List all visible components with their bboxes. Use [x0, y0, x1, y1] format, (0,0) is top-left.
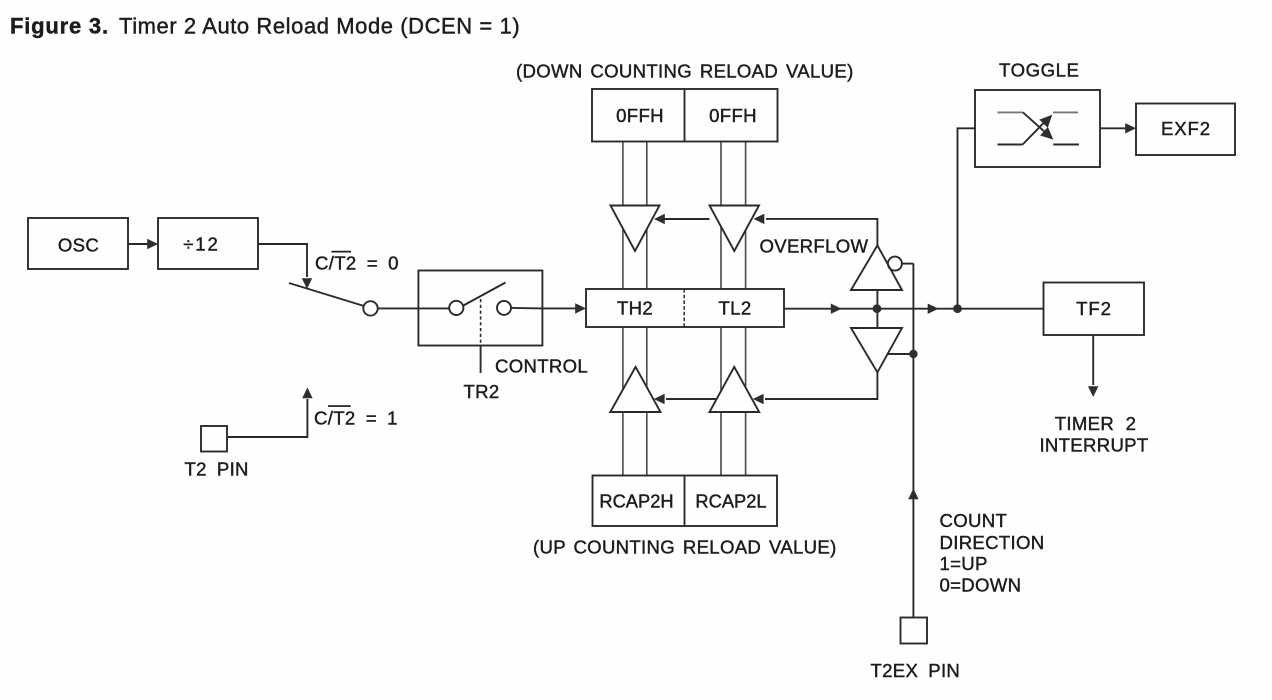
wire arrow into down-left buffer — [654, 214, 710, 224]
bus lower-left pair — [623, 327, 647, 476]
wire T2 pin up arrow — [227, 388, 313, 438]
switch blade inside — [463, 283, 506, 307]
dashed control linkage — [480, 299, 482, 346]
buffer overflow with bubble — [851, 245, 913, 290]
crossover symbol — [998, 112, 1079, 144]
bus upper-right pair — [721, 142, 746, 290]
svg-text:0FFH: 0FFH — [709, 105, 757, 126]
buffer up-right — [710, 367, 760, 412]
svg-text:RCAP2H: RCAP2H — [599, 491, 673, 512]
wire arrow control to TH2 — [543, 303, 586, 313]
svg-text:C/T2 = 1: C/T2 = 1 — [314, 408, 398, 429]
wire buffer input to main line — [876, 290, 878, 309]
wire stub junction to underflow buffer — [888, 353, 913, 355]
arrow on main line 1 — [831, 304, 842, 314]
box OSC — [28, 218, 128, 269]
svg-text:(UP COUNTING RELOAD VALUE): (UP COUNTING RELOAD VALUE) — [533, 537, 837, 558]
box EXF2 — [1136, 104, 1235, 156]
label COUNT DIRECTION — [940, 510, 1045, 596]
svg-text:÷12: ÷12 — [183, 234, 220, 255]
svg-text:RCAP2L: RCAP2L — [695, 491, 766, 512]
wire pivot to control box — [378, 307, 450, 309]
svg-text:TIMER 2: TIMER 2 — [1055, 413, 1136, 434]
svg-text:C/T2 = 0: C/T2 = 0 — [315, 253, 399, 274]
wire count direction (T2EX up) — [908, 263, 918, 617]
svg-text:T2EX PIN: T2EX PIN — [871, 660, 961, 681]
wire arrow toggle to EXF2 — [1100, 123, 1136, 133]
svg-text:DIRECTION: DIRECTION — [940, 532, 1045, 553]
box TF2 — [1044, 283, 1145, 336]
svg-text:EXF2: EXF2 — [1161, 118, 1211, 139]
wire arrow TF2 to interrupt — [1088, 335, 1098, 397]
switch contact left — [449, 301, 463, 315]
junction dot B — [953, 304, 962, 313]
svg-text:CONTROL: CONTROL — [495, 356, 588, 377]
svg-text:COUNT: COUNT — [940, 510, 1008, 531]
svg-text:Timer 2 Auto Reload Mode (DCEN: Timer 2 Auto Reload Mode (DCEN = 1) — [119, 13, 520, 38]
svg-text:T2 PIN: T2 PIN — [185, 459, 249, 480]
wire junction to underflow buffer input — [876, 309, 878, 328]
box divide-by-12 — [158, 218, 258, 269]
svg-text:OSC: OSC — [58, 235, 99, 256]
pin T2EX square — [901, 618, 928, 644]
wire main line TL2 to TF2 — [784, 308, 1044, 310]
wire overflow feedback to down-right buffer — [754, 214, 878, 246]
arrow on main line 2 — [928, 304, 939, 314]
svg-text:TOGGLE: TOGGLE — [999, 60, 1079, 81]
svg-text:Figure 3.: Figure 3. — [10, 13, 109, 38]
svg-text:TH2: TH2 — [617, 298, 653, 319]
junction dot C — [909, 350, 917, 358]
wire divider to switch — [258, 244, 312, 289]
label TIMER 2 INTERRUPT — [1039, 413, 1148, 456]
svg-text:INTERRUPT: INTERRUPT — [1039, 435, 1148, 456]
box toggle — [975, 90, 1100, 167]
switch blade outside — [289, 283, 364, 306]
label C/T2 = 1 — [314, 405, 398, 428]
switch contact right — [497, 301, 511, 315]
junction dot A — [873, 304, 882, 313]
buffer up-left — [610, 367, 660, 412]
buffer underflow — [851, 328, 902, 372]
svg-text:0FFH: 0FFH — [616, 105, 664, 126]
label C/T2 = 0 — [315, 251, 399, 274]
wire junction B to toggle — [958, 128, 976, 308]
wire arrow into up-left buffer — [654, 394, 717, 404]
buffer down-right — [710, 206, 760, 252]
svg-text:(DOWN COUNTING RELOAD VALUE): (DOWN COUNTING RELOAD VALUE) — [516, 61, 854, 82]
pin T2 square — [201, 426, 227, 452]
wire contact to box edge — [511, 307, 543, 310]
register RCAP2H/RCAP2L — [593, 476, 778, 527]
buffer down-left — [611, 206, 660, 252]
bus lower-right pair — [721, 327, 746, 476]
svg-text:1=UP: 1=UP — [940, 553, 988, 574]
svg-text:TF2: TF2 — [1076, 298, 1112, 319]
wire arrow OSC to divider — [128, 239, 158, 249]
switch pivot circle — [363, 301, 377, 315]
register 0FFH (high/low) — [592, 89, 778, 142]
register TH2/TL2 — [586, 289, 784, 327]
bus upper-left pair — [623, 142, 647, 290]
wire underflow to up-right buffer — [753, 372, 878, 404]
box control — [418, 271, 542, 346]
svg-text:TR2: TR2 — [464, 381, 500, 402]
svg-text:TL2: TL2 — [719, 298, 752, 319]
title — [10, 13, 520, 38]
svg-text:OVERFLOW: OVERFLOW — [760, 236, 869, 257]
svg-text:0=DOWN: 0=DOWN — [940, 575, 1022, 596]
